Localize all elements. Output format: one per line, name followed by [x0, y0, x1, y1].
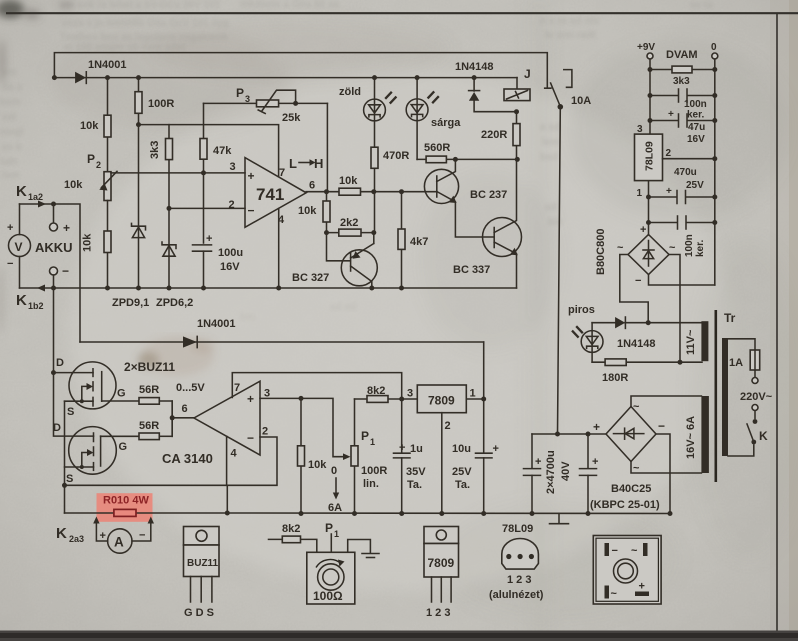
wire top switched rail: [54, 53, 547, 89]
svg-text:2×BUZ11: 2×BUZ11: [124, 360, 175, 374]
svg-text:10A: 10A: [571, 95, 591, 107]
svg-text:(KBPC 25-01): (KBPC 25-01): [590, 499, 660, 511]
svg-text:1a2: 1a2: [28, 192, 43, 202]
transformer winding 16V 6A: [685, 396, 709, 473]
wire CA3140 pin7 supply: [232, 373, 401, 399]
resistor R 56R upper: [139, 384, 172, 436]
transistor Q2 BC237: [424, 159, 507, 237]
svg-text:100R: 100R: [361, 465, 387, 477]
svg-text:B80C800: B80C800: [595, 229, 607, 275]
svg-text:1: 1: [470, 388, 476, 400]
switch 10A: [545, 70, 592, 110]
svg-text:1b2: 1b2: [28, 301, 44, 311]
svg-text:ble: ble: [548, 217, 563, 228]
resistor R 10k lower of P2 chain: [82, 201, 112, 291]
battery terminal AKKU plus: [50, 204, 71, 235]
svg-text:lem: lem: [542, 137, 559, 148]
svg-text:bsd: bsd: [540, 152, 558, 163]
svg-text:P: P: [87, 152, 95, 166]
svg-text:1A: 1A: [729, 357, 743, 369]
svg-text:7809: 7809: [428, 556, 455, 570]
transistor Q3 BC337: [453, 159, 522, 288]
zener ZPD6,2: [156, 242, 193, 309]
wire left rail: [649, 59, 651, 235]
svg-text:BUZ11: BUZ11: [187, 558, 219, 569]
svg-text:Tr: Tr: [724, 311, 736, 325]
svg-text:78L09: 78L09: [644, 141, 656, 171]
battery terminal AKKU minus: [50, 264, 70, 288]
svg-text:0: 0: [711, 42, 717, 53]
svg-text:1N4001: 1N4001: [197, 318, 236, 330]
ammeter A: [93, 517, 154, 554]
wire source bus to shunt: [62, 401, 67, 513]
svg-text:ker.: ker.: [687, 110, 704, 121]
svg-text:8k2: 8k2: [367, 385, 385, 397]
LED zold green: [339, 75, 396, 147]
svg-text:DVAM: DVAM: [666, 49, 698, 61]
regulator U3 7809: [407, 385, 476, 432]
svg-text:0: 0: [331, 465, 337, 477]
svg-text:K: K: [56, 525, 67, 542]
label 0...5V: [176, 382, 205, 394]
svg-text:47k: 47k: [213, 145, 232, 157]
transformer primary winding 220V: [722, 338, 755, 456]
svg-text:~: ~: [611, 588, 618, 600]
svg-text:B40C25: B40C25: [611, 483, 651, 495]
svg-text:sv ta: sv ta: [690, 0, 713, 11]
svg-text:sárga: sárga: [431, 117, 461, 129]
page frame top rule: [6, 12, 798, 14]
svg-text:J: J: [524, 67, 531, 81]
wire reference rung: [136, 122, 279, 177]
svg-text:zöld: zöld: [339, 86, 361, 98]
svg-text:n s ro sd nls: n s ro sd nls: [540, 16, 599, 27]
svg-text:4k7: 4k7: [410, 236, 428, 248]
resistor R 4k7: [398, 192, 428, 291]
svg-text:G D S: G D S: [184, 607, 214, 619]
svg-text:P: P: [325, 521, 333, 535]
svg-text:10k: 10k: [308, 459, 327, 471]
label G gate M1: [117, 388, 126, 400]
svg-text:+: +: [668, 109, 674, 120]
wire main ground rail: [227, 512, 670, 515]
svg-text:100n: 100n: [684, 99, 707, 110]
capacitor C 100u 16V: [193, 173, 244, 291]
resistor R010 4W shunt: [103, 495, 149, 517]
svg-text:BC 327: BC 327: [292, 272, 329, 284]
potentiometer P2 10k: [64, 152, 117, 201]
svg-text:P: P: [236, 86, 244, 100]
svg-text:a sd: a sd: [540, 122, 560, 133]
label K1a2: [16, 183, 43, 202]
svg-text:~: ~: [617, 242, 624, 254]
svg-text:G: G: [119, 441, 128, 453]
svg-text:BC 337: BC 337: [453, 264, 490, 276]
wire B40C25 plus bus: [532, 432, 606, 437]
svg-text:D: D: [53, 422, 61, 434]
wire 741 pin4 to ground rail: [276, 209, 281, 291]
capacitor C 47u 16V: [648, 109, 718, 145]
resistor R 560R: [417, 142, 520, 163]
LED sarga yellow: [406, 75, 461, 159]
svg-text:K: K: [16, 183, 27, 200]
resistor R 10k to BC327 base: [298, 192, 350, 261]
resistor R 8k2 to P1 trimmer: [269, 523, 317, 552]
resistor R 10k CA3140 input: [298, 398, 328, 516]
svg-text:P: P: [361, 429, 369, 443]
svg-text:7: 7: [279, 167, 285, 179]
wire CA3140 pin4: [226, 436, 228, 485]
zener ZPD9,1: [112, 125, 149, 309]
svg-text:8k2: 8k2: [282, 523, 300, 535]
wire 7809 ground pin: [439, 413, 444, 516]
svg-text:D: D: [56, 357, 64, 369]
svg-text:−: −: [635, 275, 641, 287]
label 0 to 6A adjustment: [328, 465, 342, 514]
svg-text:11V~: 11V~: [685, 329, 697, 355]
terminal 220V lower: [752, 405, 758, 411]
svg-text:10u: 10u: [452, 443, 471, 455]
node K1b2: [51, 286, 56, 291]
resistor R 100R: [135, 75, 174, 125]
terminal 0: [711, 42, 718, 59]
svg-text:+: +: [7, 222, 13, 234]
svg-text:CA 3140: CA 3140: [162, 451, 213, 466]
svg-text:1: 1: [334, 529, 339, 539]
potentiometer P1 100R: [351, 399, 387, 516]
svg-text:+: +: [592, 456, 598, 468]
transistor M2 BUZ11: [65, 427, 140, 475]
voltmeter V: [7, 204, 31, 288]
capacitor C 4700u second: [580, 434, 599, 516]
svg-text:L: L: [289, 156, 297, 171]
svg-text:le snn radt: le snn radt: [545, 30, 596, 41]
terminal 220V upper: [752, 378, 758, 384]
current arrow on K1b2 wire: [37, 285, 45, 292]
svg-text:+: +: [666, 186, 672, 197]
transistor Q1 BC327: [292, 233, 377, 291]
wire battery minus rail: [20, 287, 517, 289]
op-amp U1 741: [229, 158, 316, 228]
svg-text:56R: 56R: [139, 384, 159, 396]
svg-text:+: +: [639, 581, 645, 593]
svg-text:1u: 1u: [410, 443, 423, 455]
capacitor C 470u 25V: [646, 167, 717, 204]
package bridge KBPC square: [593, 536, 661, 605]
svg-text:100n: 100n: [684, 234, 695, 257]
svg-text:+: +: [593, 420, 600, 434]
capacitor C 1u 35V: [394, 399, 427, 516]
svg-text:~: ~: [631, 545, 638, 557]
current arrow on K1a2 wire: [38, 201, 46, 208]
wire switch to main DC node: [558, 107, 561, 434]
svg-text:bm: bm: [240, 312, 255, 323]
svg-text:S: S: [66, 473, 73, 485]
svg-text:+: +: [248, 169, 255, 183]
svg-text:180R: 180R: [602, 372, 628, 384]
svg-text:3: 3: [245, 94, 250, 104]
svg-text:−: −: [612, 545, 618, 557]
svg-text:10k: 10k: [339, 175, 358, 187]
svg-text:25V: 25V: [452, 466, 472, 478]
label S source M2: [66, 473, 73, 485]
svg-text:AKKU: AKKU: [35, 240, 73, 255]
svg-text:220V~: 220V~: [740, 391, 773, 403]
package 78L09 TO-92 bottom view: [489, 523, 544, 601]
svg-text:~: ~: [633, 401, 640, 413]
svg-text:7809: 7809: [428, 394, 455, 408]
svg-text:es b: es b: [2, 142, 22, 153]
svg-text:−: −: [139, 530, 145, 542]
svg-text:talh: talh: [0, 157, 18, 168]
svg-text:2: 2: [229, 199, 235, 211]
wire right rail: [714, 59, 716, 285]
wire B40C25 ac top to 16V winding: [631, 396, 701, 407]
svg-text:ZPD9,1: ZPD9,1: [112, 297, 149, 309]
svg-text:lsm: lsm: [2, 170, 19, 181]
svg-text:25V: 25V: [686, 180, 704, 191]
svg-text:lin.: lin.: [363, 478, 379, 490]
resistor R 10k output series: [339, 175, 361, 195]
relay J coil: [504, 67, 531, 101]
svg-text:16V: 16V: [220, 261, 240, 273]
svg-text:1N4148: 1N4148: [617, 338, 656, 350]
svg-text:K: K: [16, 292, 27, 309]
diode D 1N4148 piros: [592, 317, 702, 350]
svg-text:+: +: [640, 224, 646, 236]
transistor M1 BUZ11: [65, 362, 140, 409]
svg-text:bsm: bsm: [0, 97, 21, 108]
label 220V: [740, 391, 773, 403]
capacitor C 100n ker lower: [646, 216, 717, 257]
brown stain: [137, 336, 215, 376]
label K1b2: [16, 292, 44, 311]
svg-text:A: A: [114, 535, 124, 550]
bridge rectifier B80C800: [595, 224, 676, 287]
capacitor C 4700u first: [524, 434, 573, 516]
wire drain bus: [51, 288, 94, 436]
svg-text:ker.: ker.: [695, 240, 706, 257]
LED piros red: [568, 304, 603, 362]
package BUZ11 TO-220: [184, 527, 220, 620]
label L to H: [289, 156, 323, 171]
node K1a2: [51, 202, 56, 207]
bleed-through ghost text: [0, 0, 713, 323]
svg-text:3k3: 3k3: [149, 141, 161, 159]
capacitor C 100n ker upper: [648, 89, 718, 121]
svg-text:2a3: 2a3: [69, 534, 84, 544]
package 7809 TO-220: [424, 527, 459, 620]
resistor R 2k2: [327, 217, 377, 236]
svg-text:−: −: [7, 258, 13, 270]
resistor R 3k3 DVAM: [648, 66, 718, 87]
svg-text:S: S: [67, 406, 74, 418]
svg-text:0...5V: 0...5V: [176, 382, 205, 394]
svg-text:220R: 220R: [481, 129, 507, 141]
svg-text:4: 4: [231, 448, 238, 460]
transformer winding 11V: [685, 321, 708, 361]
svg-text:megl: megl: [0, 127, 24, 138]
svg-text:2: 2: [445, 420, 451, 432]
svg-text:10k: 10k: [80, 120, 99, 132]
svg-text:3: 3: [230, 161, 236, 173]
red highlight R010: [97, 493, 153, 522]
trimmer package P1: [307, 521, 379, 604]
resistor R 47k: [200, 103, 232, 172]
svg-text:K: K: [759, 429, 768, 443]
wire 741 output: [306, 189, 437, 194]
svg-text:1 2 3: 1 2 3: [507, 574, 531, 586]
svg-text:vm sok ra lehet a SV-DCs 26V 1: vm sok ra lehet a SV-DCs 26V 101: [60, 0, 221, 11]
svg-text:+: +: [63, 221, 70, 235]
svg-text:100R: 100R: [148, 98, 174, 110]
svg-text:1: 1: [637, 188, 643, 199]
svg-text:sd ml: sd ml: [330, 302, 356, 313]
label 2xBUZ11: [124, 360, 175, 374]
svg-text:2: 2: [666, 148, 672, 159]
label DVAM: [666, 49, 698, 61]
op-amp U2 CA3140: [162, 381, 270, 466]
wire P3 to output node: [326, 103, 328, 191]
resistor R 180R: [592, 359, 702, 384]
wire shunt line: [65, 485, 230, 515]
svg-text:7: 7: [234, 382, 240, 394]
svg-text:6: 6: [182, 403, 188, 415]
svg-text:3: 3: [407, 388, 413, 400]
label D drain M2: [53, 422, 61, 434]
label pin 6: [182, 403, 188, 415]
svg-text:100Ω: 100Ω: [313, 589, 343, 603]
regulator U4 78L09: [635, 124, 672, 199]
svg-text:Ta.: Ta.: [407, 479, 422, 491]
svg-text:−: −: [658, 419, 665, 433]
svg-text:3k3: 3k3: [673, 76, 690, 87]
svg-text:1N4001: 1N4001: [88, 59, 127, 71]
wire CA3140 pin3: [260, 396, 351, 460]
resistor R 10k upper of P2 chain: [80, 75, 111, 172]
svg-text:Ta.: Ta.: [455, 479, 470, 491]
svg-text:V: V: [15, 240, 23, 254]
wire CA3140 output to gates: [170, 401, 194, 436]
svg-text:1: 1: [370, 437, 375, 447]
svg-text:2k2: 2k2: [340, 217, 358, 229]
label Tr: [724, 311, 736, 325]
svg-text:−: −: [248, 204, 255, 218]
wire B80C800 minus to 0 rail: [649, 275, 715, 286]
wire 741 pin3 input: [111, 170, 245, 175]
svg-text:H: H: [314, 156, 323, 171]
wire 741 pin2 input: [167, 206, 246, 211]
svg-text:val: val: [2, 112, 16, 123]
svg-text:el 100 smgm sb nsm sdst: el 100 smgm sb nsm sdst: [64, 42, 186, 53]
svg-text:16V: 16V: [687, 134, 705, 145]
wire 7809 output: [466, 342, 486, 453]
svg-text:35V: 35V: [406, 466, 426, 478]
potentiometer P3 25k: [204, 86, 328, 124]
svg-text:1 2 3: 1 2 3: [426, 607, 450, 619]
svg-text:+: +: [100, 530, 106, 542]
svg-text:R010 4W: R010 4W: [103, 495, 149, 507]
resistor R 220R: [481, 112, 520, 160]
svg-text:piros: piros: [568, 304, 595, 316]
switch K mains: [747, 419, 768, 444]
svg-text:10k: 10k: [298, 205, 317, 217]
svg-text:78L09: 78L09: [502, 523, 533, 535]
svg-text:2: 2: [262, 426, 268, 438]
label D drain M1: [56, 357, 64, 369]
svg-text:vsza s jn lvenntlv Oita OcV 10: vsza s jn lvenntlv Oita OcV 101 ilyg: [62, 18, 229, 29]
wire B80C800 ac right tap: [669, 255, 683, 365]
wire B40C25 ac bottom to 16V winding: [631, 462, 701, 474]
capacitor C 10u 25V: [452, 443, 499, 516]
wire B80C800 ac left tap: [620, 255, 648, 323]
label S source M1: [67, 406, 74, 418]
label G gate M2: [119, 441, 128, 453]
wire B40C25 minus to ground rail: [656, 434, 673, 516]
wire 78L09 ground pin2: [663, 156, 718, 161]
resistor R 470R: [371, 147, 409, 232]
svg-text:25k: 25k: [282, 112, 301, 124]
svg-text:40V: 40V: [560, 461, 572, 481]
svg-text:+: +: [493, 443, 499, 455]
resistor R 3k3: [149, 125, 173, 244]
svg-text:~: ~: [669, 242, 676, 254]
wire K1a2 sense branch: [20, 204, 81, 342]
svg-text:−: −: [62, 264, 69, 278]
svg-text:16V~ 6A: 16V~ 6A: [685, 416, 697, 459]
svg-text:2: 2: [96, 160, 101, 170]
svg-text:741: 741: [256, 185, 284, 204]
svg-text:+: +: [206, 233, 212, 245]
svg-text:mkdsete a Oita 60 sa: mkdsete a Oita 60 sa: [240, 0, 339, 10]
label K2a3: [56, 525, 84, 544]
label AKKU: [35, 240, 73, 255]
node battery plus rail junction: [52, 75, 57, 80]
svg-text:560R: 560R: [424, 142, 450, 154]
ground symbol: [550, 514, 569, 524]
svg-text:6: 6: [309, 180, 315, 192]
svg-text:BC 237: BC 237: [470, 189, 507, 201]
svg-text:+: +: [399, 442, 405, 454]
wire CA3140 pin2 feedback: [65, 437, 278, 485]
svg-text:G: G: [117, 388, 126, 400]
wire +9V rail: [54, 77, 517, 79]
svg-text:+9V: +9V: [637, 42, 655, 53]
page frame right rule: [776, 13, 778, 641]
svg-text:10k: 10k: [82, 233, 94, 252]
svg-text:sd: sd: [545, 202, 557, 213]
fuse 1A: [729, 350, 760, 370]
terminal +9V: [637, 42, 655, 59]
svg-text:470R: 470R: [383, 150, 409, 162]
svg-text:(alulnézet): (alulnézet): [489, 589, 544, 601]
diode D2 1N4001 lower: [80, 318, 484, 348]
svg-text:−: −: [247, 431, 254, 445]
diode D flyback 1N4148: [455, 61, 519, 114]
svg-text:56R: 56R: [139, 420, 159, 432]
svg-text:10k: 10k: [64, 179, 83, 191]
bridge rectifier B40C25: [590, 401, 665, 511]
resistor R 8k2 to 7809: [355, 385, 418, 402]
bottom scan bar: [0, 631, 798, 641]
svg-text:ita s: ita s: [2, 82, 22, 93]
svg-text:1N4148: 1N4148: [455, 61, 494, 73]
svg-text:47u: 47u: [688, 122, 705, 133]
diode D1 1N4001: [75, 59, 126, 83]
svg-text:470u: 470u: [674, 167, 697, 178]
svg-text:+: +: [535, 456, 541, 468]
transformer core: [714, 310, 717, 482]
